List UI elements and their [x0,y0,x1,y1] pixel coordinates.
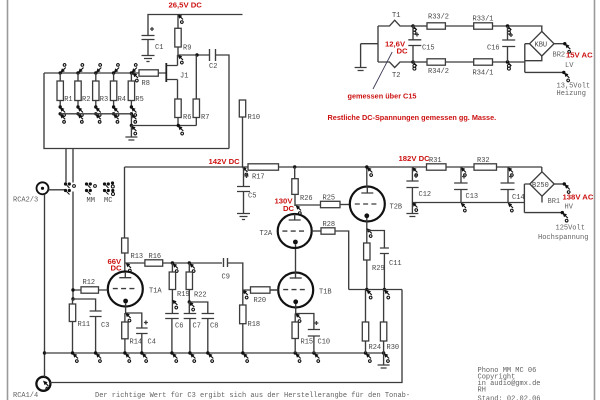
svg-text:C16: C16 [487,45,500,53]
svg-text:26,5V DC: 26,5V DC [169,1,203,10]
switch contact below R2 [76,105,83,123]
wire 66V node to R16 [125,262,145,264]
resistor R22 [186,263,192,302]
svg-text:LV: LV [565,62,574,70]
test point on 26,5V rail [178,14,184,23]
svg-text:KBU: KBU [535,42,548,50]
switch S1 contacts [64,182,76,194]
wire RCA shield vertical [44,195,46,378]
label R16 [149,253,162,261]
switch contact below R3 [94,105,101,123]
test point at R9 bottom [178,55,184,64]
svg-text:T2B: T2B [390,204,403,212]
triode T2B [350,187,385,244]
wire RCA1/4 bottom return [50,290,402,383]
label BR2 [553,52,566,60]
wire 130V node to R25 [295,204,321,206]
ground bus junction C4 [140,351,147,362]
label T2B [390,204,403,212]
svg-text:R30: R30 [387,344,400,352]
resistor R19 [169,263,175,314]
label 182V DC [399,154,431,163]
terminal 15V AC [563,42,570,53]
wire drain node to C2 [178,54,210,56]
resistor R34/2 [427,59,445,65]
wire cathode to C10 [296,314,314,330]
wire HV return bus [412,202,524,204]
wire contact 4 to R6 R7 bottom [131,125,196,127]
wire B250 bottom vertex [541,196,543,202]
svg-text:C9: C9 [222,274,230,282]
label C6 [175,323,183,331]
svg-text:HV: HV [565,204,574,212]
svg-text:Heizung: Heizung [557,90,586,98]
svg-text:T2: T2 [392,72,400,80]
test point C12 bottom [412,202,418,211]
svg-text:RCA2/3: RCA2/3 [13,197,38,205]
transistor J1 [158,63,177,82]
label 142V DC [209,157,241,166]
wire pointer line [373,52,392,89]
svg-text:182V DC: 182V DC [399,154,431,163]
label MC [104,197,112,205]
capacitor C11 [380,248,389,290]
wire R33/2 to R33/1 [445,25,473,27]
terminal LV [562,71,569,82]
node R22 tap [188,261,195,272]
wire KBU output top [554,43,564,45]
label R26 [300,195,313,203]
resistor R30 [380,290,386,354]
svg-text:BR2: BR2 [553,52,566,60]
label T2 [392,72,400,80]
svg-text:R32: R32 [477,157,490,165]
resistor R18 [240,290,246,354]
svg-text:C5: C5 [248,193,256,201]
svg-text:142V DC: 142V DC [209,157,241,166]
rectifier B250 BR1 [530,172,554,196]
node R6 bottom [177,118,184,135]
wire cathode to C11 [367,231,385,249]
transformer winding T2 [378,62,413,68]
svg-text:R33/2: R33/2 [428,14,449,22]
label C5 [248,193,256,201]
capacitor C4 [126,313,148,353]
label R4 [118,96,126,104]
ground bus junction R24 [364,351,371,362]
svg-text:R20: R20 [254,297,267,305]
label LV [565,62,574,70]
svg-text:R8: R8 [142,80,150,88]
node 142V tap R26 [293,165,296,168]
label R8 [142,80,150,88]
ground transformer center tap [355,68,367,71]
terminal 138V AC [563,182,570,193]
resistor R7 [193,55,199,126]
resistor R14 [122,313,128,353]
label C7 [193,323,201,331]
label 13,5Volt [557,83,591,91]
resistor R32 [474,164,497,170]
resistor R10 [239,100,245,167]
wire R22 bottom to C7 C8 [189,302,208,314]
svg-text:C7: C7 [193,323,201,331]
test point 142V [242,167,248,176]
label C15 [422,45,435,53]
svg-text:R2: R2 [82,96,90,104]
resistor R8 [139,70,158,76]
switch contact 4 [130,124,137,135]
title block date [478,396,541,400]
label R7 [201,114,209,122]
terminal HV [561,211,568,222]
node junction R7 top [195,53,198,56]
wire B250 output bottom [524,212,561,214]
label C11 [389,260,402,268]
label R33/1 [473,16,494,24]
label R29 [372,265,385,273]
svg-text:C15: C15 [422,45,435,53]
svg-text:R9: R9 [183,45,191,53]
svg-text:R12: R12 [83,279,96,287]
capacitor C12 [406,167,418,214]
label C9 [222,274,230,282]
label R1 [64,96,72,104]
label C10 [318,339,331,347]
svg-text:MM: MM [87,197,95,205]
switch contact below R5 [130,105,137,123]
wire KBU left vertex [525,44,530,73]
test point C13 tap [461,167,467,176]
label KBU [535,42,548,50]
capacitor C5 [237,167,250,214]
node C11 bottom [383,288,390,299]
label R5 [135,96,143,104]
node R12 grid junction [71,288,74,291]
ground bus junction C7 [188,351,195,362]
label B250 [532,182,549,190]
resistor R34/1 [474,59,493,65]
label 15V AC [566,50,593,59]
label R24 [369,344,382,352]
resistor R16 [145,260,222,266]
wire ground bus [45,352,384,354]
svg-text:Restliche DC-Spannungen gemess: Restliche DC-Spannungen gemessen gg. Mas… [328,113,497,122]
resistor R4 [110,73,116,106]
label 125Volt [556,225,585,233]
resistor R5 [128,73,134,106]
svg-text:C2: C2 [209,63,217,71]
node R5 top [130,64,137,75]
capacitor C9 [224,258,228,267]
svg-text:in audio@gmx.de: in audio@gmx.de [478,380,541,388]
wire junction to C3 [73,299,96,311]
title block line 2 [478,374,516,382]
ground bus junction R30 [382,351,389,362]
capacitor C6 [165,314,179,354]
wire C9 to R20 node [228,263,243,290]
resistor R3 [93,73,99,106]
node R19 tap [171,261,178,272]
label gemessen ueber C15 [348,92,417,101]
label R33/2 [428,14,449,22]
resistor R11 [69,299,75,353]
transformer winding T1 [378,20,413,26]
test point R20 node [242,290,248,299]
resistor R33/1 [474,23,493,29]
resistor R6 [175,99,181,118]
svg-text:R34/1: R34/1 [473,70,494,78]
svg-text:R18: R18 [248,321,261,329]
svg-text:R17: R17 [252,174,265,182]
label R13 [131,253,144,261]
ground bus junction R11 [71,351,78,362]
wire KBU output bottom [525,71,563,73]
resistor R20 [243,287,278,293]
svg-text:C3: C3 [101,322,109,330]
label C3 [101,322,109,330]
svg-text:C6: C6 [175,323,183,331]
test point left of R8 [131,71,138,82]
resistor R1 [57,73,63,106]
label T2A [260,230,273,238]
resistor R9 [175,15,181,56]
capacitor C8 [202,314,215,354]
ground bus junction R14 [123,351,130,362]
wire B250 left vertex [524,184,529,213]
svg-text:T1: T1 [392,12,400,20]
capacitor C13 [454,167,468,203]
ground symbol at bus end [378,353,390,368]
label 66V DC [108,257,123,273]
label C2 [209,63,217,71]
svg-text:R6: R6 [183,114,191,122]
wire ladder rail [44,72,139,74]
label T1A [149,288,162,296]
svg-text:R5: R5 [135,96,143,104]
svg-text:R26: R26 [300,195,313,203]
resistor R29 [364,243,370,290]
label C12 [419,191,432,199]
svg-text:R4: R4 [118,96,126,104]
resistor R2 [75,73,81,106]
wire J1 drain up [177,55,179,66]
svg-text:T1A: T1A [149,288,162,296]
test point C14 bottom [508,203,514,212]
page border right [594,0,596,400]
node shield to ground bus [43,351,46,354]
label R34/2 [428,68,449,76]
ground below C1 [142,56,155,62]
svg-text:R15: R15 [301,339,314,347]
node R29 bottom [365,288,372,299]
node R2 top [76,64,83,75]
svg-text:15V AC: 15V AC [566,50,593,59]
svg-text:gemessen über C15: gemessen über C15 [348,92,417,101]
svg-text:Der richtige Wert für C3 ergib: Der richtige Wert für C3 ergibt sich aus… [95,392,410,400]
label R20 [254,297,267,305]
label R17 [252,174,265,182]
label T1 [392,12,400,20]
label C1 [155,44,163,52]
svg-text:RH: RH [478,387,486,395]
title block line 4 [478,387,486,395]
resistor R28 [321,228,349,290]
triode T1B [270,273,313,314]
svg-text:J1: J1 [180,73,188,81]
label BR1 [548,198,561,206]
triode T1A [108,272,143,314]
label RCA2/3 [13,197,38,205]
label MM [87,197,95,205]
label HV [565,204,574,212]
connector RCA2/3 [37,182,49,194]
svg-text:DC: DC [283,204,295,213]
wire 142V rail left [125,166,249,168]
svg-text:T1B: T1B [319,289,332,297]
label 12,6V DC [385,39,408,55]
node R4 top [112,64,119,75]
node R3 top [94,64,101,75]
node C16 bottom [506,60,512,70]
svg-text:R28: R28 [323,221,336,229]
svg-text:R19: R19 [177,291,190,299]
wire output node to feedback [367,289,402,291]
label Heizung [557,90,586,98]
switch contact below R4 [112,105,119,123]
svg-text:R31: R31 [429,157,442,165]
wire feedback to R29 node [349,289,367,291]
resistor R15 [292,314,298,354]
svg-text:Stand: 02.02.06: Stand: 02.02.06 [478,396,541,400]
label 130V DC [275,197,295,213]
svg-text:R14: R14 [130,339,143,347]
label R22 [194,292,207,300]
page border left [7,0,9,400]
svg-text:R7: R7 [201,114,209,122]
svg-text:R13: R13 [131,253,144,261]
label R12 [83,279,96,287]
wire T2B anode to rail [366,167,368,187]
label R19 [177,291,190,299]
test point C14 tap [508,167,514,176]
svg-text:T2A: T2A [260,230,273,238]
capacitor C15 [408,26,421,62]
label R6 [183,114,191,122]
switch contact below R1 [59,105,66,123]
resistor R25 [321,201,350,207]
node R1 top [59,64,66,75]
svg-text:R22: R22 [194,292,207,300]
svg-text:C13: C13 [466,193,479,201]
svg-text:R34/2: R34/2 [428,68,449,76]
ground bus junction R18 [241,351,248,362]
connector RCA1/4 [36,377,50,391]
label C16 [487,45,500,53]
node C15 bottom [411,60,417,70]
resistor R17 [248,164,279,170]
wire winding center leg [361,26,378,67]
label 138V AC [563,193,594,202]
label R10 [248,114,261,122]
resistor R12 [73,287,108,293]
label R32 [477,157,490,165]
label R18 [248,321,261,329]
label R9 [183,45,191,53]
resistor R26 [292,167,298,206]
label Restliche DC-Spannungen [328,113,497,122]
wire T2 to R34/2 [413,61,428,63]
label R15 [301,339,314,347]
label R2 [82,96,90,104]
test point T1A cathode [125,313,131,322]
svg-text:R16: R16 [149,253,162,261]
svg-text:138V AC: 138V AC [563,193,594,202]
resistor R33/2 [427,23,445,29]
ground bus junction C8 [206,351,213,362]
wire ladder left drop to switch [44,73,229,183]
label T1B [319,289,332,297]
label 26,5V DC [169,1,203,10]
node grid leak junction [71,297,74,300]
test point 182V [412,167,418,176]
wire R33/1 to KBU [493,26,542,31]
capacitor C1 [142,27,155,55]
resistor R24 [362,290,368,354]
capacitor C2 [210,49,216,61]
label RCA1/4 [13,392,38,400]
capacitor C14 [501,167,515,203]
wire R34/1 to bridge [493,61,525,63]
svg-text:R1: R1 [64,96,72,104]
svg-text:R33/1: R33/1 [473,16,494,24]
test point T1B cathode [295,313,301,322]
ground below contact 4 [125,126,137,141]
svg-text:C12: C12 [419,191,432,199]
capacitor C3 [90,311,102,353]
test point T2B cathode [366,228,372,237]
label R31 [429,157,442,165]
ground bus junction C3 [94,351,101,362]
svg-text:R10: R10 [248,114,261,122]
svg-text:C10: C10 [318,339,331,347]
label R30 [387,344,400,352]
test point C13 bottom [461,203,467,212]
svg-text:RCA1/4: RCA1/4 [13,392,38,400]
label R28 [323,221,336,229]
test point 66V [126,263,132,272]
svg-text:B250: B250 [532,182,549,190]
label R34/1 [473,70,494,78]
ground below C5 [237,214,250,220]
resistor R13 [122,238,128,272]
rectifier KBU BR2 [530,31,554,56]
label R3 [100,96,108,104]
svg-text:C14: C14 [512,194,525,202]
label R11 [78,321,91,329]
wire T1 to R33/2 [413,25,428,27]
svg-text:C8: C8 [210,323,218,331]
capacitor C7 [184,314,197,354]
svg-text:R25: R25 [323,195,336,203]
svg-text:DC: DC [397,47,409,56]
node 26,5V supply rail [148,15,243,36]
wire KBU bottom vertex [525,56,542,61]
wire B250 output top [554,183,563,185]
svg-text:Hochspannung: Hochspannung [538,234,588,242]
test point R19 bottom [172,300,178,309]
svg-text:R29: R29 [372,265,385,273]
